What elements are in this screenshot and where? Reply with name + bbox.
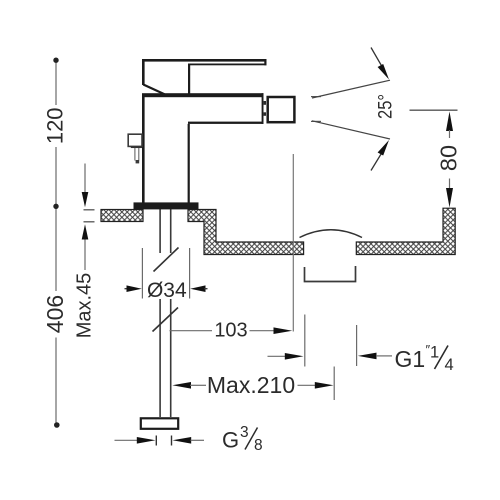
supply pipe lower segment [159, 299, 161, 417]
Max.210 left arrow [172, 382, 191, 389]
103 extension line (spout outlet axis) [292, 154, 294, 332]
svg-text:103: 103 [214, 320, 247, 342]
handle block left edge [142, 59, 145, 85]
svg-text:120: 120 [43, 107, 68, 144]
25deg lower tick [311, 120, 321, 122]
drain body U-shape [305, 266, 356, 282]
ceramic deck + step wall + bowl bottom left of drain (hatched) [188, 210, 304, 255]
faucet lever tip [264, 59, 266, 65]
ceramic bowl bottom right of drain + right wall (hatched) [356, 208, 455, 254]
handle block diagonal cut [143, 85, 164, 95]
svg-text:G: G [222, 428, 239, 453]
dot deck level [53, 204, 58, 209]
faucet body top / spout top band [142, 93, 264, 97]
svg-text:8: 8 [254, 437, 263, 454]
80 upper arrow [446, 112, 453, 132]
faucet base flange [134, 202, 199, 209]
svg-text:80: 80 [436, 145, 462, 171]
svg-text:Ø34: Ø34 [147, 279, 187, 302]
25deg upper ray [312, 80, 390, 98]
aerator square [268, 97, 295, 122]
G3/8 nut [141, 418, 178, 429]
side valve stem [131, 146, 142, 148]
side valve stem tip [136, 160, 140, 163]
drain dome arc [300, 230, 363, 238]
80 lower arrow [449, 179, 451, 190]
svg-text:25°: 25° [376, 94, 397, 119]
svg-text:Max.45: Max.45 [74, 273, 96, 339]
faucet handle top line [142, 59, 267, 62]
svg-text:3: 3 [240, 424, 249, 441]
dot top of 120 [53, 58, 58, 63]
svg-text:406: 406 [42, 295, 68, 333]
drain right extension line [356, 325, 358, 366]
Max.45 lower arrow [82, 224, 89, 239]
Max.45 extension ticks [84, 209, 95, 211]
svg-text:Max.210: Max.210 [207, 372, 295, 398]
80 reference line [410, 109, 458, 111]
supply pipe upper segment [159, 208, 161, 253]
dot bottom of 406 [54, 422, 60, 428]
G3/8 left arrow [115, 439, 138, 441]
spout end edge [262, 93, 264, 124]
dimension 120/406 vertical line [55, 63, 57, 423]
diameter 34 right arrow [190, 285, 205, 292]
diameter 34 extension lines [141, 248, 143, 299]
spout bottom edge [188, 122, 264, 124]
103 dimension line [170, 330, 213, 332]
svg-text:4: 4 [445, 356, 454, 374]
Max.45 upper arrow [84, 164, 86, 195]
faucet body right edge [188, 124, 190, 203]
faucet lever underside [190, 64, 267, 66]
svg-text:G1: G1 [395, 346, 426, 372]
Max.210 right arrow [298, 384, 316, 386]
pipe break slash lower [153, 308, 179, 332]
G3/8 right arrow [173, 437, 192, 444]
25deg upper leader and arrow [371, 48, 382, 67]
drain dimension right arrow [358, 353, 377, 360]
side valve box on body left [128, 134, 142, 146]
svg-text:1: 1 [430, 344, 439, 362]
drain dimension left arrow [268, 355, 286, 357]
aerator coupling nub lower [264, 112, 266, 116]
aerator coupling nub upper [264, 101, 266, 105]
Max.210 right extension line [333, 367, 335, 401]
faucet body left edge [142, 97, 145, 203]
25deg lower leader and arrow [371, 153, 382, 171]
handle block back edge [188, 64, 190, 95]
25deg lower ray [312, 121, 390, 139]
diameter 34 left arrow [125, 288, 129, 290]
ceramic deck left section (hatched) [101, 210, 143, 222]
G3/8 ticks [155, 436, 157, 446]
pipe break slash upper [154, 248, 179, 272]
drain left extension line [304, 315, 306, 367]
25deg upper tick [311, 96, 321, 98]
